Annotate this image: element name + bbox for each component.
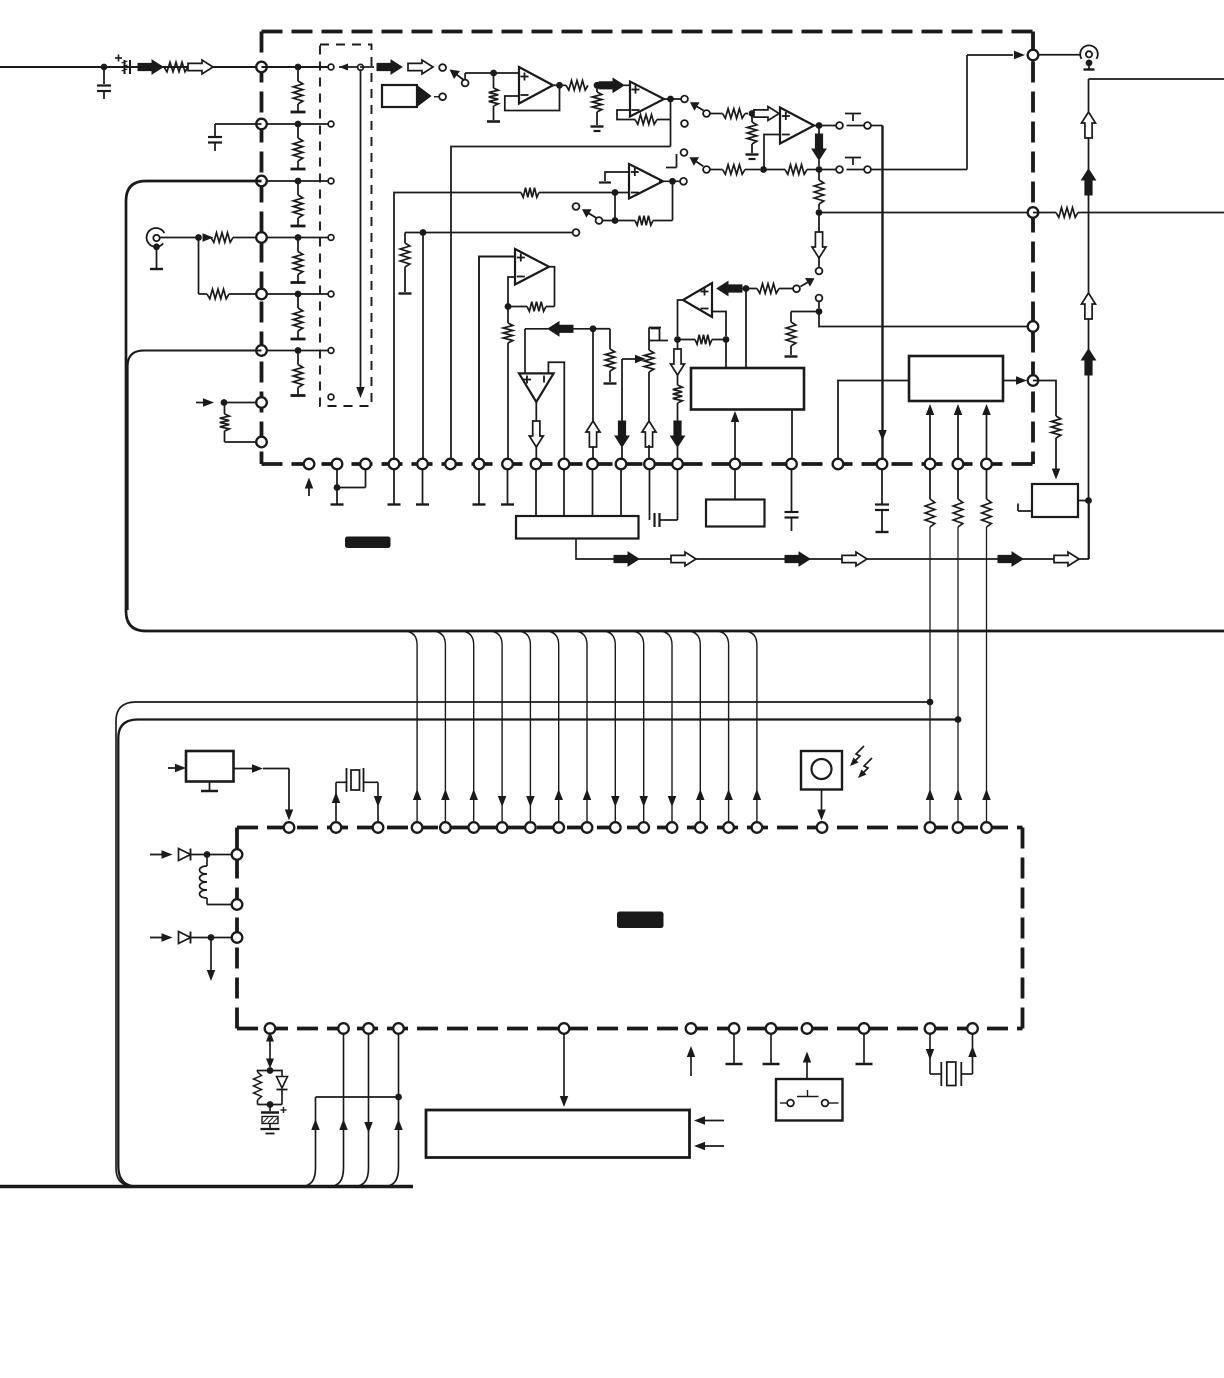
pin inner block feedback [358,64,364,70]
wire pot row [622,358,637,360]
arrow interconnect 10 down [668,796,677,807]
pin IC2 top 20 [981,822,992,833]
wire divider vertical [198,238,200,295]
wire bus GL b [118,720,958,1187]
node reset bottom [258,1104,283,1106]
pin IC1 right ctl [1028,375,1039,386]
wire B3 to rail [1078,500,1089,502]
contact flag output [439,93,446,100]
node A2 output [667,96,674,103]
wire S4 bottom route [405,232,573,234]
wire A2 output contact [664,98,681,100]
arrow x986 up [982,789,991,800]
wire row1 thick [262,66,328,68]
wire jack to divider [160,237,196,239]
ground pin734 [733,1034,735,1063]
wire IC1 left pin row 5 to ladder [262,293,328,295]
pin IC1 bottom 4 [389,459,400,470]
pin IC2 bottom 3 [363,1023,374,1034]
node ladder junction row 3 [295,178,302,185]
ground pin479 [478,470,480,504]
arrow rail solid up 1 [1082,169,1096,195]
contact switch S1 pivot [462,80,469,87]
wire mix contacts [819,169,836,171]
ground pin422 [422,470,424,504]
arrow A5 chain hollow down [671,349,685,375]
wire curl 1 [301,1097,316,1187]
arrow interconnect 6 up [554,789,563,800]
pin IC2 bottom 1 [265,1023,276,1034]
arrow rail hollow up 2 [1082,293,1096,319]
node fb join A3 [760,166,767,173]
pin IC2 top 9 [553,822,564,833]
op-amp A7 [519,373,554,402]
pin IC2 top 16 [752,822,763,833]
contact S4 top [573,203,580,210]
node A4 minus [612,189,619,196]
op-amp A2 [630,82,664,117]
arrow into B8 right 2 [698,1145,724,1147]
resistor ladder row 6 [297,351,299,365]
arrow interconnect 13 up [753,789,762,800]
contact S5 top [681,149,688,156]
capacitor pin882 [881,470,883,504]
arrow row559 solid 3 [998,552,1023,566]
switch S3 control glyph [845,113,861,115]
arrow A7 out hollow down [529,421,543,447]
arrow x958 up [954,789,963,800]
wire interconnect 2 [431,631,445,822]
pin IC2 top 11 [610,822,621,833]
wire A7 output [535,402,537,425]
wire box1 in b [745,289,747,369]
wire row1 to switch [360,66,374,68]
resistor opamp1 bias [493,73,495,88]
wire pins to B5 [535,470,537,516]
wire B7 out [234,768,255,770]
wire A2 out to pin451 [451,147,671,465]
wire A1 feedback [505,85,560,110]
pin IC2 top 17 [817,822,828,833]
wire B5 to arrows row [576,539,1089,560]
label block redacted IC2 [617,912,664,929]
wire S6 to output pin [871,169,967,171]
pin IC1 bottom 3 [360,459,371,470]
pin IC1 bottom 13 [644,459,655,470]
contact switch S2 bottom [681,120,688,127]
contact S6 left [836,166,843,173]
wire A4 input from pin394 [394,193,521,465]
wire arrows row riser [1088,501,1090,560]
pin IC2 top 10 [582,822,593,833]
pin IC2 bottom 8 [766,1023,777,1034]
block B1 [691,368,804,410]
switch S1 arm [453,72,466,82]
wire S7 bottom [818,302,820,309]
wire diode row2 [150,937,165,939]
wire A3 feedback [764,135,780,170]
wire S5 out [710,169,723,171]
capacitor battery backup [269,1105,271,1112]
resistor pot [648,328,650,351]
wire A3 down [818,126,820,135]
arrow inner block down [356,387,365,398]
resistor A5 feedback [678,339,696,341]
contact S4 pivot [596,217,603,224]
pin IC1 bottom 2 [332,459,343,470]
wire S1 pivot to opamp1 [464,73,466,80]
arrow into B8 right 1 [698,1120,724,1122]
pin IC2 bottom 12 [967,1023,978,1034]
contact S7 pivot [793,285,800,292]
switch S6 control glyph [845,157,861,159]
ground opamp1 bias [487,120,500,123]
node input junction [101,64,108,71]
node bus a [927,699,934,706]
pin IC1 bottom 17 [833,459,844,470]
resistor S5 a [723,165,746,175]
label block redacted top [345,537,391,549]
wire interconnect 4 [488,631,502,822]
pin IC2 left 2 [232,899,243,910]
wire X2 right [961,1073,972,1075]
wire bus GL a [116,702,930,1187]
wire A4 plus ref [605,172,629,181]
arrow D2 down [210,938,212,971]
pin IC2 top 4 [412,822,423,833]
pin IC1 left 8 [256,437,267,448]
pin IC1 bottom 9 [531,459,542,470]
pin IC2 top 1 [284,822,295,833]
node A1 output [556,82,563,89]
wire row7 to pin [224,402,256,404]
switch S5 glyph [666,167,677,169]
op-amp A6 [515,249,549,285]
pin IC2 top 8 [525,822,536,833]
wire diode row1 [150,854,165,856]
connector RCA jack right [1039,54,1081,56]
wire loop pins337-365 [337,470,366,488]
ground pin337 [336,488,338,504]
pin IC2 top 5 [440,822,451,833]
node A3 output [816,122,823,129]
wire curl link [316,1096,399,1098]
resistor input series [164,62,188,72]
arrow interconnect 3 up [469,789,478,800]
pin IC1 bottom 19 [925,459,936,470]
arrow row559 hollow 1 [671,552,696,566]
pin IC2 top 3 [373,822,384,833]
crystal X2 [940,1062,942,1086]
pin IC2 top 18 [925,822,936,833]
wire into A2 [624,84,630,86]
pin IC1 right mon [1028,321,1039,332]
resistor arrow term [609,329,611,349]
connector RCA jack left [147,228,165,247]
wire audio input line [0,66,256,68]
inductor L1 [206,855,208,867]
wire B2 left [838,381,909,460]
pin IC1 right rec [1028,207,1039,218]
pin IC1 bottom 21 [981,459,992,470]
arrow rail hollow up 1 [1082,112,1096,138]
wire S2 to opamp3 [710,113,723,115]
resistor row7-8 [224,403,226,415]
pin IC2 bottom 7 [729,1023,740,1034]
wire xtal left [335,782,337,822]
pin IC1 right out [1028,50,1039,61]
pin IC2 bottom 4 [393,1023,404,1034]
arrow interconnect 8 down [611,796,620,807]
resistor ctl [1033,381,1056,417]
wire to A7 plus [524,329,526,374]
arrow rail solid up 2 [1082,349,1096,375]
arrow A3 input hollow [754,107,779,121]
node pin422 tap [420,229,427,236]
capacitor pin791 [791,470,793,511]
resistor A5-S7 [757,284,779,294]
pin IC2 bottom 9 [802,1023,813,1034]
node loop [334,484,341,491]
pin IC1 bottom 18 [877,459,888,470]
node D1 [204,851,211,858]
comparator flag block [382,85,417,107]
wire arrow row drop pin593 [592,329,594,421]
wire interconnect 1 [403,631,417,822]
arrow into B1 [734,414,736,464]
arrow B2 in b [957,408,959,459]
pin inner block row 4 [328,235,334,241]
op-amp A5 [683,283,712,317]
arrow A5 input solid left [717,282,742,296]
pin IC1 left 3 [256,176,267,187]
arrow row1 solid [377,60,402,74]
block B8 display [426,1110,690,1158]
arrow interconnect 4 down [498,796,507,807]
wire A5 output [678,300,684,336]
cable route inner merge [128,351,262,611]
resistor S4 term [404,233,406,244]
op-amp A1 [519,67,553,104]
wire IR to pin [821,790,823,813]
wire A2 feedback [617,110,635,120]
wire monitor to pin [819,312,1029,327]
wire A6 plus [479,257,515,465]
pin IC1 bottom 8 [502,459,513,470]
cable route bottom edge [0,1185,413,1188]
pin IC1 left 7 [256,397,267,408]
wire into A3 [779,114,780,115]
wire S3 to bus [871,125,883,127]
switch power pushbutton [806,1062,808,1079]
node ladder junction row 2 [295,121,302,128]
resistor A6 down [507,307,509,324]
pin IC2 top 14 [695,822,706,833]
diode D2 [179,932,191,944]
node curl link [395,1094,402,1101]
arrow signal flow hollow [188,60,213,74]
block B7 regulator [186,751,234,782]
contact S4 bottom [573,229,580,236]
wire A5 minus [712,312,726,337]
contact S7 top [816,268,823,275]
wire A1 output [553,84,566,86]
arrow bus down [878,430,887,441]
pin IC1 left 6 [256,345,267,356]
contact switch S1a top [439,64,446,71]
wire A4 fb up [672,181,674,220]
arrow pot up hollow [642,421,656,447]
wire inner block vertical [360,70,362,387]
pin inner block row 1 [328,64,334,70]
pin IC2 top 12 [638,822,649,833]
node mix [816,166,823,173]
glyph pot step [649,327,661,329]
resistor A5 chain [677,375,679,385]
pin inner block row 2 [328,121,334,127]
resistor ladder row 3 [297,181,299,195]
wire IC1 left pin row 3 to ladder [262,180,328,182]
arrow stub pin309 [308,482,310,496]
ground A3 bias [746,153,759,155]
arrow row1 hollow [408,60,433,74]
arrow into B3 [1052,469,1061,480]
arrow row solid left [548,322,573,336]
arrow into B7 [168,767,181,769]
block B2 [909,356,1003,401]
pin IC1 left 5 [256,289,267,300]
wire pin735 to B4 [734,470,736,500]
pin IC1 bottom 20 [953,459,964,470]
wire IC1 left pin row 4 to ladder [262,237,328,239]
node monitor [816,308,823,315]
glyph B3 bracket [1018,504,1032,512]
polarity + label [115,57,122,59]
wire B7 corner [288,769,290,811]
resistor ladder row 1 [297,67,299,81]
arrow A5 chain solid down [671,421,685,447]
pin IC1 left 2 [256,119,267,130]
resistor ladder row 4 [297,238,299,252]
wire A6 fb up [508,277,515,307]
node opamp1 input [490,70,497,77]
node A6 fb [505,303,512,310]
pin IC1 left 4 [256,232,267,243]
wire interconnect 6 [545,631,559,822]
contact S3 right [864,122,871,129]
pin IC2 top 15 [723,822,734,833]
resistor rec out [1056,208,1078,218]
wire A6 output [549,267,555,307]
ground pin771 [770,1034,772,1063]
wire B1 right down [791,410,793,460]
wire supply rail vertical [1088,79,1090,559]
wire interconnect 11 [686,631,700,822]
wire interconnect 13 [743,631,757,822]
wire interconnect 12 [715,631,729,822]
arrow row559 hollow 2 [842,552,867,566]
pin IC1 bottom 1 [304,459,315,470]
switch S5 arm [692,159,703,167]
resistor A4 input [539,192,615,194]
pin inner block row 5 [328,291,334,297]
pin IC1 left 1 [256,62,267,73]
wire B2 out [1003,380,1017,382]
ground B7 [209,782,211,791]
pin IC2 top 13 [667,822,678,833]
node A4 fb [612,217,619,224]
wire monitor left [791,311,819,313]
resistor monitor term [790,312,792,323]
wire interconnect 3 [460,631,474,822]
wire interconnect 7 [573,631,587,822]
node A5 fb left [674,336,681,343]
pin IC1 bottom 5 [417,459,428,470]
wire curl 3 [354,1034,369,1187]
block B4 [706,500,765,527]
node bus b [955,716,962,723]
glyph ref step [651,328,660,330]
wire pot drop [621,359,623,421]
contact S7 bottom [816,295,823,302]
arrow interconnect 12 up [724,789,733,800]
resistor A3 bias [751,114,753,123]
switch S4 arm [585,211,597,218]
arrow pot solid down [615,421,629,447]
capacitor input shunt to ground [103,67,105,84]
node A5 input [743,285,750,292]
arrow interconnect 2 up [441,789,450,800]
pin inner block bottom [328,394,334,400]
block B3 [1032,484,1078,517]
wire interconnect 9 [630,631,644,822]
wire IC1 left pin row 6 to ladder [262,350,328,352]
IR bolts [852,746,864,764]
arrow updown pin270 [269,1036,271,1064]
wire curl 4 [384,1034,399,1187]
ground pin507 [507,470,509,504]
node arrow row [590,325,597,332]
contact switch S2 top [681,96,688,103]
switch S2 arm [693,104,704,111]
wire A3 out contacts [819,125,836,127]
diode D1 [179,849,191,861]
pin IC2 bottom 11 [925,1023,936,1034]
node ladder junction row 6 [295,347,302,354]
contact switch S2 pivot [703,110,710,117]
arrow interconnect 5 down [526,796,535,807]
node ladder junction row 5 [295,291,302,298]
contact S3 left [836,122,843,129]
resistor A2 bias [596,85,598,92]
pin IC2 top 7 [497,822,508,833]
pin IC2 top 19 [953,822,964,833]
capacitor pins649-677 [649,470,651,520]
arrow pin564 into B8 [563,1034,565,1098]
wire tap to pin422 [422,233,424,465]
arrow feedback inside inner block [339,64,348,71]
capacitor electrolytic series [124,60,126,74]
wire interconnect 10 [658,631,672,822]
contact S5 pivot [703,166,710,173]
IC2 dashed border [237,826,1023,830]
resistor A1 to A2 [566,81,588,91]
wire IC1 left pin row 2 to ladder [262,123,328,125]
inner dashed block attenuator [320,45,372,407]
arrow into pin289 [285,810,294,821]
node A3 input [749,110,756,117]
node A2 input [594,82,601,89]
